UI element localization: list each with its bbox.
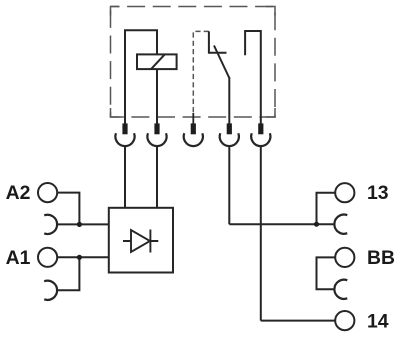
terminal 13: screw circle: [335, 183, 354, 202]
terminal A1: socket cup: [44, 281, 57, 300]
svg-text:14: 14: [367, 310, 389, 332]
terminal 13: socket cup: [334, 215, 347, 234]
plug-in contact 5: [251, 123, 270, 146]
dashed enclosure corner marks: [111, 7, 276, 118]
wire: A2 bracket: [57, 193, 79, 225]
junction 13: [314, 222, 319, 227]
contact fixed terminal (upper, from divider corner): [209, 31, 227, 52]
plug-in contact 2: [147, 123, 166, 146]
junction A2: [77, 222, 82, 227]
svg-text:A2: A2: [6, 182, 31, 204]
wire: coil bracket (A-path up-over-down through coil): [125, 30, 157, 123]
input suppressor box (diode): [109, 208, 173, 273]
wire: A2 cup to box: [57, 223, 109, 225]
coil diagonal mark: [151, 54, 165, 69]
terminal BB: socket cup: [334, 280, 347, 299]
wire: divider stub to plug 3: [192, 113, 194, 124]
contact fixed terminal (right, n-bracket): [245, 31, 261, 124]
wire: plug5 across to terminal 14: [261, 320, 336, 322]
terminal A2: screw circle: [38, 183, 57, 202]
wire: plug2 to diode box: [156, 146, 158, 208]
svg-text:A1: A1: [6, 247, 31, 269]
plug-in contact 4: [220, 123, 239, 146]
relay module dashed enclosure: [111, 7, 276, 118]
wire: A1 to box: [57, 256, 109, 258]
wire: 13 bracket: [317, 193, 336, 225]
plug-in contact 3: [184, 123, 203, 146]
contact moving arm (diagonal): [214, 46, 229, 79]
plug-in contact 1 (pin + socket): [115, 123, 134, 146]
terminal A1: screw circle: [38, 248, 57, 267]
diode D1: [123, 230, 158, 253]
terminal BB: screw circle: [335, 248, 354, 267]
wire: plug5 down: [260, 146, 262, 321]
svg-text:13: 13: [367, 182, 389, 204]
wire: A1 bracket down to cup: [57, 257, 79, 290]
wire: plug4 across to terminal 13: [229, 223, 334, 225]
relay coil K (rectangle with diagonal): [137, 54, 177, 69]
wire: plug4 down: [228, 146, 230, 224]
wire: moving arm down to plug 4: [228, 77, 230, 124]
terminal 14: screw circle: [335, 311, 354, 330]
dashed divider between coil and contact sections: [193, 31, 209, 114]
terminal A2: socket cup: [44, 215, 57, 234]
wire: BB bracket: [317, 257, 336, 289]
wire: plug1 to diode box: [124, 146, 126, 208]
junction A1: [77, 255, 82, 260]
svg-text:BB: BB: [367, 247, 395, 269]
